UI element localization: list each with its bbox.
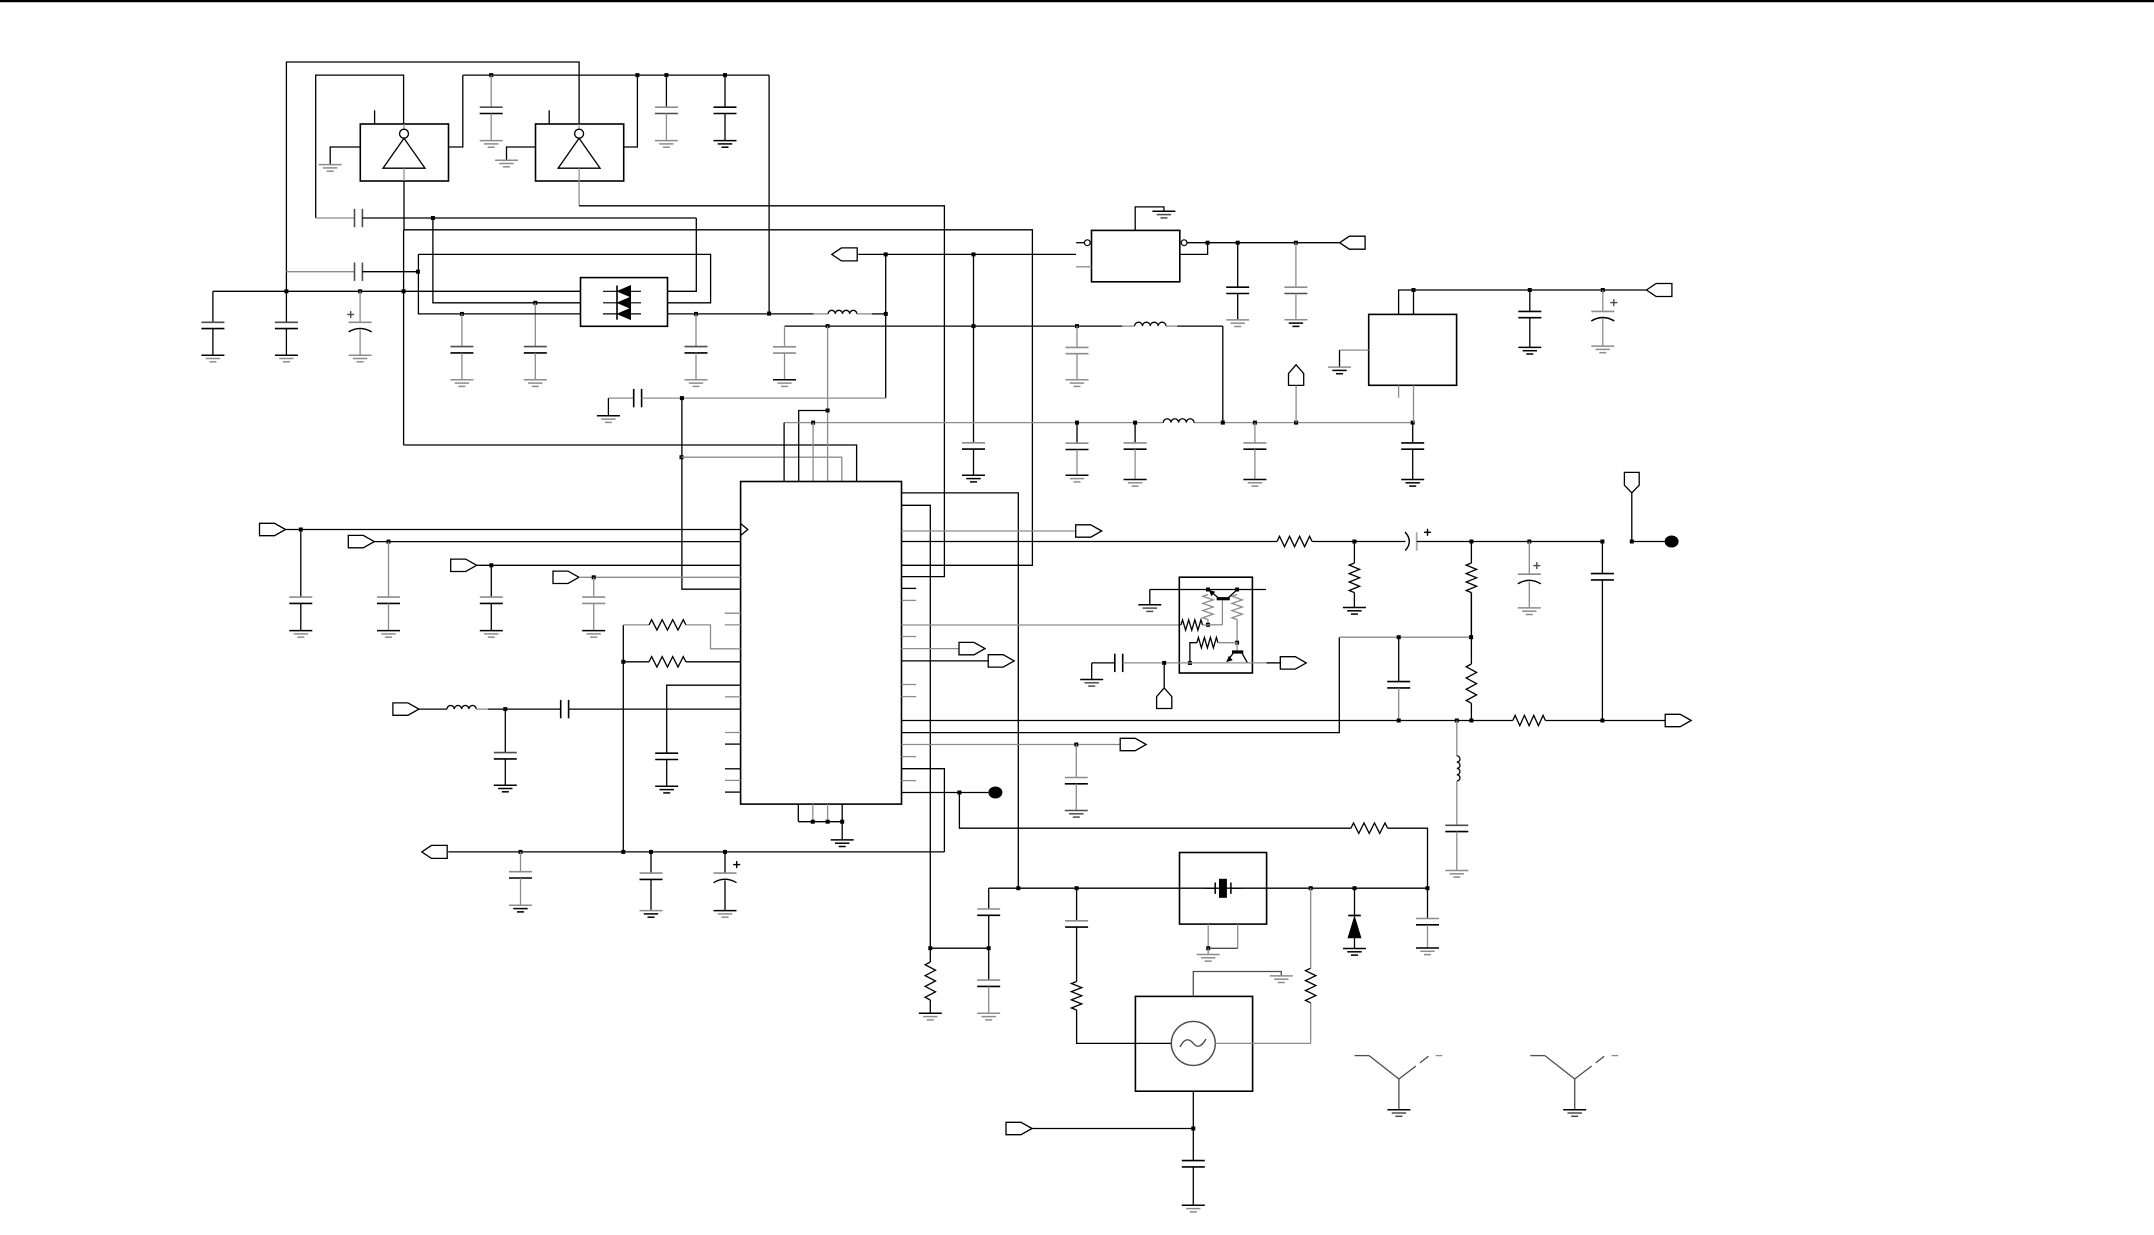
junction bias-R1 [1206, 588, 1210, 592]
junction y422-x1222 [1221, 421, 1225, 425]
wire bias gnd [1149, 590, 1151, 605]
pin stub IC right g [902, 780, 917, 782]
ground osc top [1270, 975, 1293, 977]
junction bus-x827 [826, 324, 830, 328]
capacitor C26 [490, 565, 492, 597]
wire input 4 [579, 576, 741, 578]
capacitor C13 [784, 326, 786, 347]
junction diodebus-C11 [694, 312, 698, 316]
crystal symbol [1204, 887, 1215, 889]
pin stub U1 top [374, 110, 376, 124]
capacitor C21 [1295, 243, 1297, 288]
ground R16 [919, 1012, 942, 1014]
pin stub U4 [1076, 266, 1091, 268]
capacitor C24 [300, 530, 302, 598]
ground C10 [349, 354, 372, 356]
wire IC right pin y505 [902, 505, 931, 948]
junction B [416, 270, 420, 274]
ground C28 [655, 785, 678, 787]
pin stub U5 bottom [1398, 385, 1400, 397]
capacitor C33 series [1601, 542, 1603, 574]
junction rail3-C7 [460, 312, 464, 316]
ground C23 [1591, 345, 1614, 347]
ground C9 [275, 354, 298, 356]
junction clk-C24 [299, 528, 303, 532]
connector P3 [1340, 236, 1365, 249]
connector P14 [1120, 738, 1146, 750]
connector P12 [959, 642, 985, 654]
resistor R8 [1353, 542, 1355, 564]
capacitor C25 [388, 542, 390, 598]
junction y422-x1296 [1294, 421, 1298, 425]
junction y792 [957, 791, 961, 795]
pin stub IC right a [902, 587, 917, 589]
junction xtal-x1427 [1426, 886, 1430, 890]
junction emitter-P16 [1162, 661, 1166, 665]
junction y541-R8 [1352, 540, 1356, 544]
junction caprail-2 [358, 289, 362, 293]
ground D4 [1343, 948, 1366, 950]
junction y720-C39 [1397, 719, 1401, 723]
wire feedback A [316, 217, 355, 219]
IC bottom pins [797, 804, 799, 822]
junction caprail-1 [284, 289, 288, 293]
resistor R17 [1071, 982, 1081, 1011]
capacitor C9 [285, 291, 287, 322]
capacitor C29 [504, 709, 506, 753]
capacitor C5 [354, 263, 356, 281]
wire V2 to diode rail2 [433, 218, 581, 303]
resistor R6 [623, 661, 649, 663]
capacitor C17 [1134, 423, 1136, 443]
connector P17 [1280, 657, 1306, 669]
wire main out y541 [902, 541, 1278, 543]
wire IC right y625 [902, 624, 1182, 626]
wire x827 to IC [827, 326, 829, 481]
junction U4out-a [1206, 241, 1210, 245]
wire bus y852 [448, 851, 944, 853]
wire IC pin cap [667, 685, 741, 753]
wire IC right y732 [902, 637, 1340, 732]
ground C44 [1416, 947, 1439, 949]
ground C22 [1518, 346, 1541, 348]
junction y541-R9 [1469, 540, 1473, 544]
diode D1 [603, 290, 641, 292]
wire IC right pin y493 [902, 493, 1019, 888]
ground C19 [1401, 479, 1424, 481]
capacitor C34 [1075, 745, 1077, 778]
regulator U4 [1092, 230, 1180, 281]
junction y422-x1254 [1253, 421, 1257, 425]
wire A to diode pin1 [668, 218, 697, 291]
wire inner loop [316, 75, 404, 218]
junction D2-a [884, 252, 888, 256]
junction R11-base [1206, 623, 1210, 627]
wire osc top gnd [1193, 972, 1281, 997]
junction y720-x1602 [1600, 719, 1604, 723]
ground C29 [494, 784, 517, 786]
wire top supply rail [463, 74, 769, 76]
junction y852-C35 [519, 850, 523, 854]
transistor array U7 [1179, 577, 1252, 673]
junction caprail-3 [402, 289, 406, 293]
wire link y637 [1339, 636, 1471, 638]
junction y422-x1412 [1411, 421, 1415, 425]
wire IC right y744 [902, 744, 1121, 746]
wire emitter line [1092, 662, 1115, 664]
pin stub IC right f [902, 756, 917, 758]
capacitor C43 [1065, 920, 1088, 922]
junction y290-C23 [1601, 288, 1605, 292]
junction rail-C1 [489, 73, 493, 77]
resistor R10 [1351, 823, 1388, 833]
ground R8 [1343, 607, 1366, 609]
wire U4 gnd pin [1135, 207, 1164, 231]
ground C14 [1066, 379, 1089, 381]
ground C15 [962, 474, 985, 476]
ground IC bottom [831, 839, 854, 841]
ground bias [1138, 604, 1161, 606]
resistor R16 [929, 948, 931, 962]
wire U5 out bottom [1413, 385, 1415, 422]
pin stub IC left c [725, 696, 741, 698]
wire IC right pin y533 [902, 530, 1077, 532]
junction y422-x813 [811, 421, 815, 425]
wire U2 output to rail [624, 75, 638, 147]
wire lower supply y422 [784, 422, 1163, 424]
junction U5 top [1412, 288, 1416, 292]
wire clock input [286, 529, 741, 531]
junction y290-C22 [1528, 288, 1532, 292]
capacitor C20 [1237, 243, 1239, 288]
ground C40 [1445, 870, 1468, 872]
pin bubble U4 out [1181, 240, 1187, 246]
junction rail-C3 [723, 73, 727, 77]
wire power bus y326 [785, 325, 1124, 327]
capacitor C36 [650, 852, 652, 873]
resistor R12 [1232, 595, 1242, 620]
capacitor C42 [988, 948, 990, 980]
inductor L2 [1163, 419, 1194, 423]
inductor L4 chain [1456, 721, 1458, 756]
clock pin marker [741, 524, 748, 536]
ground emitter left [1091, 663, 1093, 680]
ground C35 [509, 904, 532, 906]
junction bias-R2 [1235, 588, 1239, 592]
ground U1 input [319, 164, 342, 166]
ground C27 [582, 630, 605, 632]
ground U4 [1152, 210, 1175, 212]
ground C26 [480, 630, 503, 632]
ground crystal [1197, 954, 1220, 956]
connector P13 [988, 655, 1014, 667]
wire osc bottom [1192, 1091, 1194, 1160]
junction xtal-diode [1353, 886, 1357, 890]
capacitor C10 polarized [359, 291, 361, 322]
wire diode bus out [668, 313, 815, 315]
wire input 3 [477, 564, 741, 566]
wire resistor drop [622, 625, 624, 852]
junction x988 [987, 946, 991, 950]
junction A [431, 216, 435, 220]
wire net D2 [858, 253, 1076, 255]
junction Ra-Rb [621, 660, 625, 664]
ground C36 [640, 910, 663, 912]
junction y422-x1077 [1075, 421, 1079, 425]
junction rail2-C6 [533, 301, 537, 305]
capacitor C45 [1182, 1160, 1205, 1162]
wire IC right y720 long [902, 720, 1513, 722]
wire U5 top pins [1399, 290, 1647, 314]
pin stub IC left g [725, 779, 741, 781]
junction y541-P11 [1630, 540, 1634, 544]
junction y852-x623 [621, 850, 625, 854]
antenna AE2 [1530, 1055, 1545, 1057]
junction rail-C2 [664, 73, 668, 77]
wire U1 input [330, 147, 360, 165]
wire D [418, 254, 710, 302]
pin stub IC right e [902, 696, 917, 698]
junction xtal-x1310 [1309, 886, 1313, 890]
ground U5 enable [1328, 366, 1351, 368]
capacitor C40 [1445, 824, 1468, 826]
pin stub IC left d [725, 732, 741, 734]
connector P2 up [1289, 365, 1304, 386]
wire F3 to IC top pin5 [682, 457, 842, 481]
capacitor C30 coupling [560, 700, 562, 718]
capacitor C37 polarized [724, 852, 726, 873]
ground C2 [655, 140, 678, 142]
wire bypass cap rail [213, 290, 581, 292]
antenna AE1 [1355, 1055, 1370, 1057]
junction U4out-b [1236, 241, 1240, 245]
ground C42 [977, 1012, 1000, 1014]
wire to node dot [1632, 541, 1665, 543]
wire crystal case gnd [1207, 924, 1209, 948]
junction y422-x1135 [1133, 421, 1137, 425]
ground C34 [1065, 810, 1088, 812]
capacitor C15 [962, 442, 985, 444]
wire IC top pin1 [783, 423, 785, 482]
ground C20 [1226, 319, 1249, 321]
pin stub IC left h [725, 791, 741, 793]
junction R13 emitter [1188, 661, 1192, 665]
junction x827 branch [826, 409, 830, 413]
capacitor C8 [212, 291, 214, 322]
junction y637-R9 [1469, 635, 1473, 639]
pin stub IC left f [725, 768, 741, 770]
junction U4out-c [1294, 241, 1298, 245]
resistor R13 [1190, 643, 1197, 663]
wire bias rail [1150, 589, 1266, 591]
ground C12 [597, 415, 620, 417]
ground C6 [524, 379, 547, 381]
junction R12-R13 [1235, 641, 1239, 645]
inductor L1 [813, 313, 828, 315]
junction xtal-x1019 [1016, 886, 1020, 890]
wire V1 to diode rail3 [418, 254, 580, 314]
wire IC right y768 [902, 769, 945, 852]
ground C13 [773, 379, 796, 381]
ground C1 [480, 140, 503, 142]
pin stub IC left e [725, 743, 741, 745]
wire xtal mid chain [1076, 888, 1078, 921]
oscillator G1 [1135, 996, 1252, 1091]
junction y541-C33 [1600, 540, 1604, 544]
diode D2 [603, 302, 641, 304]
capacitor C44 [1427, 888, 1429, 918]
resistor R11 [1203, 595, 1213, 620]
resistor R5 [623, 624, 649, 626]
connector P8 [553, 571, 579, 583]
wire xtal left chain [988, 888, 990, 909]
diode D3 [603, 313, 641, 315]
wire input 2 [374, 541, 740, 543]
junction y720-L4 [1455, 719, 1459, 723]
connector P10 [1076, 525, 1102, 537]
capacitor C27 [593, 577, 595, 597]
connector P9 [393, 703, 419, 715]
capacitor C28 [655, 752, 678, 754]
capacitor C3 [724, 75, 726, 107]
pin stub IC right d [902, 684, 917, 686]
node dot B [988, 787, 1002, 799]
capacitor C19 [1412, 423, 1414, 443]
junction y852-C36 [649, 850, 653, 854]
wire osc right [1215, 1042, 1310, 1044]
connector P4 [1647, 284, 1672, 297]
pin stub IC left b [725, 624, 741, 626]
capacitor C18 [1254, 423, 1256, 443]
resistor R9 [1470, 542, 1472, 564]
diode array U3 [581, 278, 668, 327]
ground C18 [1243, 479, 1266, 481]
capacitor C16 [1076, 423, 1078, 444]
regulator U5 [1369, 314, 1457, 385]
ground C32 [1518, 607, 1541, 609]
junction rail-diodebus [767, 312, 771, 316]
wire x973 chain [973, 254, 975, 442]
junction osc bottom [1191, 1127, 1195, 1131]
connector P1 [832, 248, 857, 261]
capacitor C6 [534, 303, 536, 347]
capacitor C32 polarized [1528, 542, 1530, 575]
wire U1out branch down [403, 230, 405, 445]
resistor R7 [1277, 536, 1312, 546]
capacitor C11 [695, 314, 697, 347]
wire IC right y661 [902, 660, 989, 662]
wire U2 output net [578, 181, 580, 206]
connector P6 [348, 535, 374, 547]
junction rf-C29 [503, 707, 507, 711]
ground C17 [1124, 479, 1147, 481]
ground C8 [201, 354, 224, 356]
connector P18 [1665, 714, 1691, 726]
wire y792 branch [959, 793, 1351, 829]
connector P11 down [1624, 472, 1639, 492]
diode D4 [1354, 888, 1356, 915]
pin stub IC right c [902, 636, 917, 638]
wire ref input [1032, 1128, 1193, 1130]
transistor Q1 [1217, 597, 1230, 600]
inductor L5 [1122, 325, 1135, 327]
wire feed to IC top pin 6 [404, 445, 857, 482]
connector P5 [260, 523, 286, 535]
capacitor C41 [977, 908, 1000, 910]
ground C11 [685, 379, 708, 381]
transistor Q2 [1236, 643, 1238, 652]
capacitor C39 coupling [1398, 637, 1400, 681]
inductor L3 [447, 705, 476, 709]
inverter U2 [536, 124, 624, 181]
capacitor C4 [354, 209, 356, 227]
connector P7 [451, 559, 477, 571]
capacitor C23 polarized [1602, 290, 1604, 311]
capacitor C14 [1076, 326, 1078, 347]
wire x930 chain [930, 947, 988, 949]
junction y637-C39 [1397, 635, 1401, 639]
junction y720-R9b [1469, 719, 1473, 723]
wire U5 enable [1340, 349, 1369, 351]
junction D2-b [972, 252, 976, 256]
wire crystal net [989, 887, 1428, 889]
connector P16 up [1163, 663, 1165, 688]
junction xtal-x1076 [1075, 886, 1079, 890]
capacitor C2 [665, 75, 667, 107]
inverter U1 [360, 124, 448, 181]
wire IC right y792 [902, 792, 989, 794]
ground C25 [377, 630, 400, 632]
ground C24 [289, 630, 312, 632]
capacitor C35 [520, 852, 522, 872]
ground U2 input [495, 159, 518, 161]
wire branch to IC top pin2 [799, 411, 828, 482]
wire down to cap wire [885, 254, 887, 398]
wire feedback B [286, 271, 354, 273]
connector P19 [1006, 1122, 1032, 1134]
resistor R18 [1310, 1003, 1312, 1044]
pin stub U2 top [548, 110, 550, 124]
ground C45 [1182, 1204, 1205, 1206]
ground C16 [1066, 474, 1089, 476]
resistor R15 [1512, 720, 1514, 722]
wire bus drop x1222 [1222, 326, 1224, 423]
crystal box Y1 [1180, 853, 1267, 925]
connector P15 [422, 845, 447, 858]
junction in4-C27 [592, 575, 596, 579]
wire U1 output net [403, 181, 405, 230]
junction bus-x1077 [1075, 324, 1079, 328]
main IC U6 [741, 482, 902, 805]
ground C21 [1284, 319, 1307, 321]
pin stub IC right b [902, 599, 917, 601]
pin stub IC left a [725, 612, 741, 614]
node dot A [1665, 536, 1679, 548]
capacitor C31 polarized series [1405, 532, 1409, 551]
wire branch into IC pin5 [682, 398, 741, 589]
junction in2-C25 [387, 540, 391, 544]
ground C37 [714, 910, 737, 912]
capacitor C38 [1114, 654, 1116, 672]
resistor R14 [1470, 593, 1472, 638]
wire outer loop top [286, 62, 579, 291]
wire U1 output to rail [449, 75, 463, 147]
junction diodebus-right [884, 312, 888, 316]
pin bubble U4 in [1084, 240, 1090, 246]
wire U4 output [1187, 242, 1340, 244]
junction in3-C26 [489, 563, 493, 567]
junction rail-U2out [635, 73, 639, 77]
